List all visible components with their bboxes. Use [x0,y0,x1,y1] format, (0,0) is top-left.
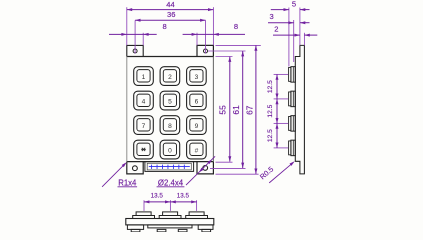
bottom view button 1 [133,212,155,219]
dim 36 [135,10,205,22]
hole bottom-left [133,166,138,171]
bottom view right block [198,225,213,230]
dim 61 [231,51,244,168]
svg-text:67: 67 [244,105,254,115]
mounting tab top-left [127,45,143,56]
svg-text:#: # [195,147,199,154]
svg-text:2: 2 [168,74,172,81]
dim 67 [244,45,257,174]
dim 44 [127,0,214,11]
dim 2 [273,25,317,37]
svg-text:9: 9 [195,123,199,130]
svg-text:12.5: 12.5 [267,104,274,117]
key 0 [160,140,180,159]
svg-text:7: 7 [142,123,146,130]
keypad body outline [127,57,214,162]
key 9 [187,116,207,135]
dim 55 [217,57,231,162]
side button 2 [289,91,296,107]
bottom view button 2 [159,212,181,219]
svg-text:8: 8 [162,22,166,31]
svg-text:3: 3 [269,12,273,21]
side extension lines top [289,8,305,67]
key 4 [134,91,154,110]
extension lines top [127,7,214,53]
mounting tab top-right [197,45,213,56]
dim chain 12.5 extension lines [274,74,289,147]
svg-text:5: 5 [292,0,296,8]
side button 1 [289,67,296,83]
key 7 [134,116,154,135]
hole top-right [204,49,208,53]
dim 8 left tab [109,22,167,36]
mounting tab bottom-left [127,162,143,174]
bottom view foot 3 [178,229,187,232]
svg-text:8: 8 [168,123,172,130]
bottom view foot 1 [131,229,140,232]
dim chain 12.5 line [276,74,279,147]
svg-text:0: 0 [168,147,172,154]
svg-text:44: 44 [166,0,174,9]
svg-text:R1x4: R1x4 [118,178,137,187]
bottom view foot 4 [202,229,211,232]
bottom view foot 2 [157,229,166,232]
svg-text:2: 2 [274,25,278,34]
svg-text:12.5: 12.5 [267,80,274,93]
bottom view middle plate [148,225,192,228]
key 6 [187,91,207,110]
bottom view left block [127,225,143,230]
leader dia 2.4x4 [157,156,216,187]
svg-text:55: 55 [217,105,227,115]
bottom view button 3 [186,212,208,219]
key 8 [160,116,180,135]
mounting tab bottom-right [197,162,213,174]
dim 13.5 extension lines [144,200,197,211]
svg-text:36: 36 [167,10,175,19]
svg-text:13.5: 13.5 [151,193,164,200]
hole bottom-right [203,166,208,171]
connector pins hatching [149,165,190,169]
dim 8 right tab [183,22,245,36]
bottom view bar [126,219,214,225]
side button 3 [289,116,296,131]
leader R0.5 [258,161,295,183]
svg-text:8: 8 [234,22,238,31]
key 1 [134,67,154,86]
svg-text:5: 5 [168,99,172,106]
key 2 [160,67,180,86]
svg-text:6: 6 [195,99,199,106]
leader R1x4 [102,162,137,187]
hole top-left [133,49,137,53]
svg-text:3: 3 [195,74,199,81]
side view plate profile [295,45,304,174]
key 5 [160,91,180,110]
svg-text:12.5: 12.5 [267,129,274,142]
dim 13.5 left [144,193,170,204]
svg-text:R0.5: R0.5 [258,165,275,182]
key hash [187,140,207,159]
svg-text:Ø2.4x4: Ø2.4x4 [158,178,184,187]
extension lines right [208,45,261,174]
connector J1 inner [147,163,191,170]
connector J1 outer [145,162,194,172]
dim 3 [268,12,310,24]
svg-text:13.5: 13.5 [177,193,190,200]
side button 4 [289,140,296,156]
svg-text:61: 61 [231,105,241,115]
svg-text:4: 4 [142,99,146,106]
key star [134,140,154,159]
dim 5 [271,0,310,11]
key 3 [187,67,207,86]
svg-text:1: 1 [142,74,146,81]
dim 13.5 right [170,193,196,204]
